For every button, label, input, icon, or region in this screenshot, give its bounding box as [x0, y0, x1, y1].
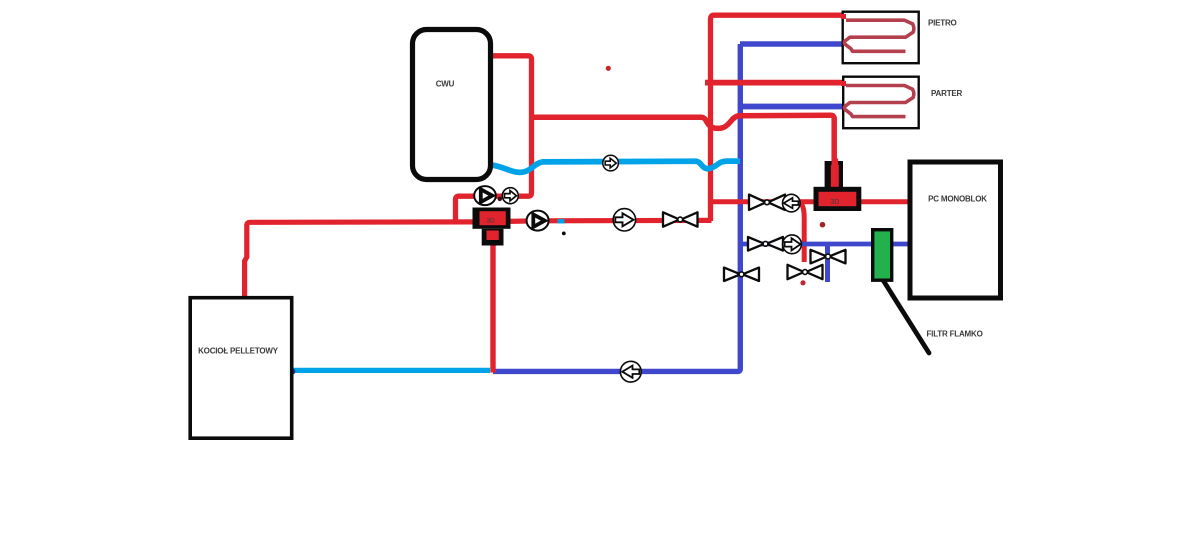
heat pump PC MONOBLOK [910, 162, 1001, 298]
radiator box PIETRO [843, 12, 919, 64]
radiator box PARTER [843, 77, 919, 129]
pump P4 (open arrow) on main line [613, 209, 635, 231]
valve V6 on blue vertical x740 [724, 268, 759, 281]
valve V4 on blue stub x827 [811, 250, 846, 264]
radiator coil PARTER [844, 86, 913, 117]
pump P1 (filled rotor) near CWU [474, 186, 496, 205]
wire: red from CWU tank top outlet down x531 and back to pumps y196 [456, 56, 532, 222]
pump P8 (open arrow, right) on blue line [783, 235, 802, 254]
node: red dot below valve V5 [800, 280, 805, 285]
wire: blue stub below valve at x827 [825, 244, 830, 282]
svg-text:FILTR FLAMKO: FILTR FLAMKO [927, 330, 983, 339]
tank CWU [413, 30, 491, 180]
filter FILTR FLAMKO (green) [873, 230, 892, 281]
3-way valve 3D #2 (left) stem [482, 229, 504, 246]
pump P2 (open arrow) near CWU [502, 188, 518, 204]
wire: cyan boiler supply to CWU y161-166 with wiggles [491, 161, 740, 172]
boiler KOCIOL PELLETOWY [190, 298, 292, 439]
valve V1 on main line [663, 212, 698, 226]
radiator coil PIETRO [844, 20, 913, 51]
valve V3 on blue line [748, 237, 783, 251]
svg-text:3D: 3D [831, 199, 840, 206]
valve V5 (lower middle) [788, 265, 823, 279]
node: red dot near 3D#1 [820, 222, 826, 228]
node: red dot upper middle [606, 66, 611, 71]
wire: red supply riser to PIETRO (vertical x709 + top run) [711, 15, 842, 221]
svg-text:PIETRO: PIETRO [928, 19, 957, 28]
wire: blue return from PIETRO y44 [740, 41, 842, 46]
3-way valve 3D #2 (left) body [473, 208, 511, 229]
pump P6 (open arrow, left) on bottom return [620, 361, 641, 382]
wire: blue run to PC MONOBLOK y244 [740, 242, 910, 247]
wire: cyan dash on red main line [558, 219, 565, 223]
wire: red curved branch down from 3D valve inlet [797, 202, 804, 262]
wire: red drop from 3D valve 2 to bottom return x493 [490, 244, 495, 373]
svg-text:CWU: CWU [436, 80, 455, 89]
3-way valve 3D #1 (right) stem [825, 159, 843, 189]
svg-text:3D: 3D [486, 218, 495, 225]
3-way valve 3D #1 (right) body [814, 187, 862, 211]
wire: cyan bottom run boiler to x490 [293, 368, 491, 373]
wire: red stub into PIETRO [841, 14, 846, 19]
wire: blue return main vertical x740 with bottom run to boiler [493, 44, 740, 371]
wire: red run from junction to PC MONOBLOK y201.8 [711, 199, 911, 204]
pump P3 (filled rotor) on main line [527, 211, 549, 231]
node: dark dot between pumps [498, 197, 502, 201]
node: navy dot at boiler outlet [289, 369, 295, 375]
wire: red main top run y117 with dip and drop to 3D valve [532, 115, 835, 163]
wire: red stub into PARTER [841, 81, 846, 86]
pump P7 (open arrow, left) on red line to 3D#1 [783, 194, 801, 212]
svg-text:KOCIOŁ PELLETOWY: KOCIOŁ PELLETOWY [198, 347, 279, 356]
pump P5 (open arrow) on cyan line [603, 155, 619, 171]
wire: red main middle run y220.9 from boiler riser to junction x709 [245, 220, 712, 296]
node: black dot below main line [562, 232, 566, 236]
svg-text:PARTER: PARTER [931, 89, 963, 98]
pointer line to FILTR FLAMKO [880, 275, 930, 354]
valve V2 on red line to 3D#1 [749, 195, 785, 210]
wire: red supply to PARTER y82.6 [705, 80, 842, 86]
svg-text:PC MONOBLOK: PC MONOBLOK [928, 195, 987, 204]
wire: blue return from PARTER y106.5 [740, 104, 842, 110]
